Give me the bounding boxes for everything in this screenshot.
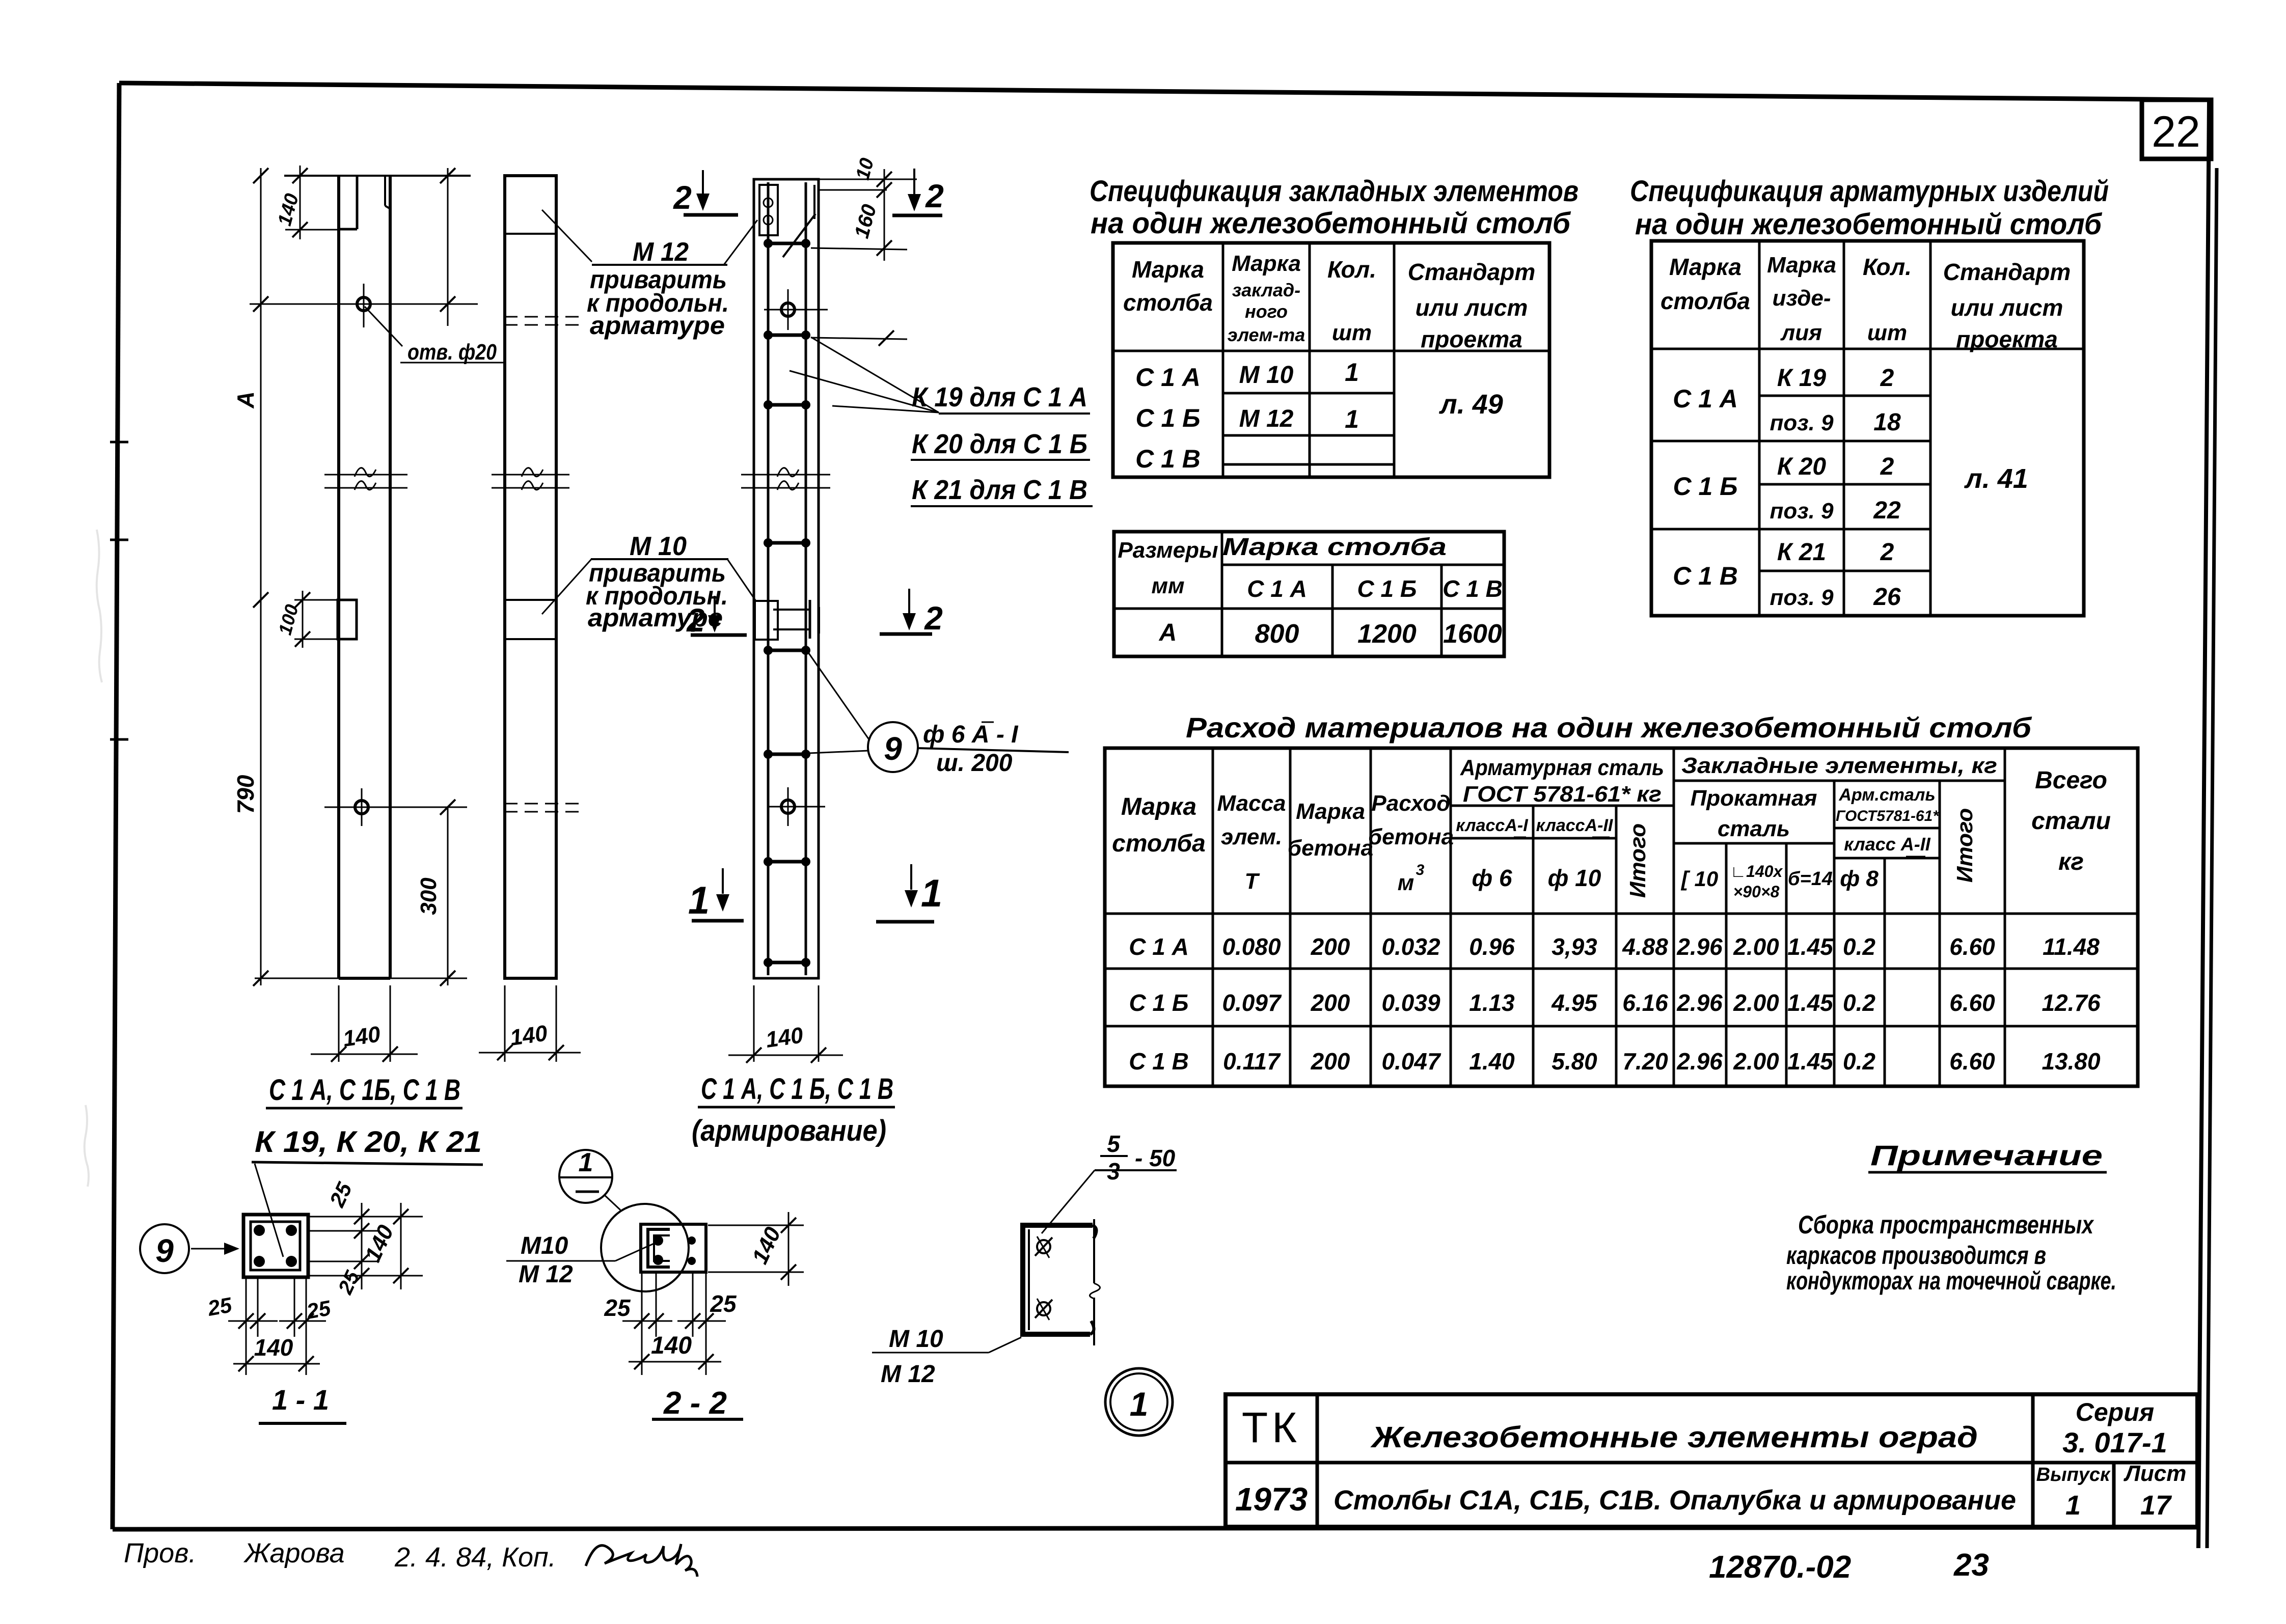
svg-text:К 19, К 20, К 21: К 19, К 20, К 21 bbox=[255, 1125, 482, 1159]
svg-text:Марка: Марка bbox=[1669, 254, 1741, 280]
svg-text:ф 8: ф 8 bbox=[1840, 866, 1879, 891]
table T4 data rows bbox=[1129, 933, 2101, 1075]
svg-text:Т: Т bbox=[1245, 869, 1260, 894]
label M10 M12 at section 2-2 bbox=[506, 1232, 656, 1288]
svg-text:элем.: элем. bbox=[1221, 824, 1282, 849]
embed M10 plate middle of post 3 bbox=[755, 600, 819, 640]
leaders to position 9 ties bbox=[809, 653, 869, 753]
svg-text:6.60: 6.60 bbox=[1949, 1048, 1995, 1075]
table title: specification of reinforcement products bbox=[1630, 175, 2109, 241]
dimension 140 bottom post C1A bbox=[311, 985, 418, 1062]
svg-text:Жарова: Жарова bbox=[243, 1538, 345, 1568]
svg-text:или лист: или лист bbox=[1416, 294, 1528, 321]
svg-text:М 10: М 10 bbox=[889, 1326, 943, 1353]
svg-text:Закладные элементы, кг: Закладные элементы, кг bbox=[1681, 753, 1997, 778]
svg-text:0.2: 0.2 bbox=[1843, 1048, 1875, 1075]
svg-text:стали: стали bbox=[2031, 808, 2111, 835]
leader from K-marks into section 1-1 bbox=[255, 1164, 283, 1257]
svg-text:классА-II: классА-II bbox=[1536, 816, 1614, 835]
svg-text:С 1 Б: С 1 Б bbox=[1673, 472, 1737, 501]
hole otv.f20 in post C1A bbox=[250, 284, 478, 327]
svg-text:Спецификация закладных элеме: Спецификация закладных элементов bbox=[1090, 175, 1579, 208]
svg-text:1: 1 bbox=[921, 872, 942, 915]
svg-text:140: 140 bbox=[254, 1334, 293, 1361]
label section 1-1 bbox=[259, 1384, 346, 1423]
svg-text:1.45: 1.45 bbox=[1787, 1048, 1834, 1075]
svg-text:25: 25 bbox=[304, 1296, 333, 1324]
svg-text:К 19 для С 1 А: К 19 для С 1 А bbox=[912, 382, 1087, 412]
svg-text:М 12: М 12 bbox=[519, 1261, 573, 1288]
svg-text:9: 9 bbox=[884, 730, 902, 767]
svg-text:140: 140 bbox=[341, 1022, 382, 1052]
title C1A C1B C1V formwork bbox=[266, 1074, 462, 1108]
dimensions below section 2-2 bbox=[604, 1272, 737, 1375]
leader M12 to post 2 bbox=[542, 210, 592, 262]
svg-text:2.96: 2.96 bbox=[1676, 989, 1723, 1016]
svg-text:ного: ного bbox=[1245, 301, 1288, 322]
rebar dots section 1-1 bbox=[254, 1225, 297, 1267]
svg-text:заклад-: заклад- bbox=[1232, 280, 1300, 300]
svg-text:М 12: М 12 bbox=[633, 237, 689, 267]
label M10 weld note bbox=[586, 532, 728, 632]
section 1-1 concrete outline bbox=[243, 1215, 308, 1277]
svg-text:140: 140 bbox=[651, 1332, 692, 1359]
svg-text:С 1 А: С 1 А bbox=[1247, 575, 1307, 602]
dimension 140 bottom post 3 bbox=[728, 985, 843, 1063]
break lines post 2 bbox=[492, 468, 569, 490]
svg-text:5: 5 bbox=[1107, 1131, 1121, 1157]
svg-text:л. 41: л. 41 bbox=[1964, 463, 2028, 494]
table T4 material consumption bbox=[1105, 748, 2138, 1086]
svg-text:поз. 9: поз. 9 bbox=[1770, 585, 1834, 610]
svg-text:бетона: бетона bbox=[1368, 824, 1454, 849]
svg-text:2.96: 2.96 bbox=[1676, 1048, 1723, 1075]
svg-text:23: 23 bbox=[1953, 1548, 1989, 1583]
svg-text:ГОСТ 5781-61* кг: ГОСТ 5781-61* кг bbox=[1463, 782, 1662, 807]
callout circle position 9 bbox=[868, 722, 918, 772]
svg-text:ш. 200: ш. 200 bbox=[936, 750, 1013, 777]
svg-text:К 21: К 21 bbox=[1777, 539, 1826, 566]
svg-text:Марка: Марка bbox=[1296, 799, 1365, 824]
svg-text:лия: лия bbox=[1780, 320, 1822, 345]
svg-text:ф 6: ф 6 bbox=[1472, 865, 1512, 891]
label M10 M12 at weld detail bbox=[872, 1326, 1021, 1388]
leader label otv.f20 bbox=[365, 307, 504, 365]
svg-text:- 50: - 50 bbox=[1135, 1145, 1176, 1171]
svg-text:на один железобетонный стол: на один железобетонный столб bbox=[1091, 207, 1571, 240]
embed M12 plate top of post 3 bbox=[759, 185, 815, 257]
svg-text:К 20 для С 1 Б: К 20 для С 1 Б bbox=[912, 429, 1087, 459]
svg-text:1200: 1200 bbox=[1357, 619, 1417, 649]
svg-text:[ 10: [ 10 bbox=[1680, 867, 1718, 891]
detail circle on section 2-2 bbox=[601, 1204, 689, 1291]
dimension 140 bottom post 2 bbox=[479, 985, 581, 1062]
svg-text:С 1 В: С 1 В bbox=[1443, 575, 1503, 602]
svg-text:Спецификация арматурных изде: Спецификация арматурных изделий bbox=[1630, 175, 2109, 208]
section marker 1 lower right bbox=[876, 864, 942, 922]
svg-text:1: 1 bbox=[1345, 405, 1359, 433]
svg-text:0.117: 0.117 bbox=[1223, 1048, 1281, 1075]
svg-text:2: 2 bbox=[925, 178, 944, 214]
svg-text:790: 790 bbox=[232, 775, 259, 814]
svg-text:6.60: 6.60 bbox=[1949, 933, 1995, 960]
svg-text:1: 1 bbox=[688, 879, 710, 922]
svg-text:1: 1 bbox=[579, 1148, 593, 1177]
svg-text:кг: кг bbox=[2058, 848, 2084, 875]
svg-text:13.80: 13.80 bbox=[2042, 1048, 2101, 1075]
svg-text:0.96: 0.96 bbox=[1469, 933, 1515, 960]
dimension 300 bbox=[255, 800, 467, 986]
svg-text:7.20: 7.20 bbox=[1622, 1048, 1668, 1075]
hidden hole lines post 2 top bbox=[504, 317, 586, 325]
svg-text:кондукторах на точечной сварке: кондукторах на точечной сварке. bbox=[1786, 1267, 2116, 1295]
svg-text:поз. 9: поз. 9 bbox=[1770, 499, 1834, 524]
svg-text:Марка: Марка bbox=[1121, 793, 1196, 820]
svg-text:С 1 В: С 1 В bbox=[1673, 562, 1738, 590]
svg-text:Марка: Марка bbox=[1767, 253, 1836, 278]
svg-text:6.60: 6.60 bbox=[1949, 989, 1995, 1016]
stirrup ties of reinforcement cage bbox=[764, 239, 810, 967]
weld detail channel profile bbox=[1020, 1223, 1097, 1337]
svg-text:мм: мм bbox=[1151, 573, 1184, 598]
svg-text:140: 140 bbox=[508, 1021, 549, 1051]
svg-text:поз. 9: поз. 9 bbox=[1770, 410, 1834, 435]
svg-text:Стандарт: Стандарт bbox=[1943, 259, 2071, 285]
svg-text:Марка: Марка bbox=[1232, 251, 1301, 276]
svg-text:Прокатная: Прокатная bbox=[1691, 786, 1817, 811]
svg-text:К 21 для С 1 В: К 21 для С 1 В bbox=[912, 475, 1087, 505]
svg-text:3. 017-1: 3. 017-1 bbox=[2062, 1426, 2167, 1458]
svg-text:Стандарт: Стандарт bbox=[1408, 259, 1536, 285]
label K19 for C1A bbox=[912, 382, 1090, 414]
svg-text:2: 2 bbox=[1880, 539, 1894, 566]
dimension 790 left side bbox=[232, 600, 268, 986]
break line weld detail bbox=[1090, 1219, 1100, 1345]
svg-text:С 1 Б: С 1 Б bbox=[1129, 989, 1189, 1016]
table T4 header texts bbox=[1112, 753, 2111, 901]
svg-text:С 1 Б: С 1 Б bbox=[1135, 404, 1200, 432]
svg-text:Примечание: Примечание bbox=[1870, 1139, 2103, 1171]
svg-text:9: 9 bbox=[155, 1232, 174, 1269]
svg-text:11.48: 11.48 bbox=[2043, 933, 2100, 960]
svg-text:17: 17 bbox=[2140, 1490, 2172, 1521]
svg-text:2.00: 2.00 bbox=[1733, 1048, 1779, 1075]
svg-text:2: 2 bbox=[924, 600, 943, 637]
svg-text:0.080: 0.080 bbox=[1222, 933, 1281, 960]
svg-text:отв. ф20: отв. ф20 bbox=[407, 340, 497, 365]
label M12 weld note bbox=[587, 237, 729, 340]
note text bbox=[1786, 1210, 2116, 1295]
svg-text:∟140x: ∟140x bbox=[1730, 862, 1783, 880]
svg-text:классА-I: классА-I bbox=[1456, 816, 1529, 835]
note title Primechanie bbox=[1868, 1139, 2107, 1172]
svg-text:18: 18 bbox=[1873, 409, 1901, 436]
leader M12 to post 3 embed bbox=[724, 220, 757, 265]
svg-text:25: 25 bbox=[710, 1290, 737, 1317]
dimensions below section 1-1 bbox=[205, 1277, 333, 1375]
svg-text:5.80: 5.80 bbox=[1552, 1048, 1597, 1075]
dimension 140 right of section 2-2 bbox=[708, 1212, 804, 1286]
svg-text:2 - 2: 2 - 2 bbox=[663, 1386, 727, 1421]
svg-text:М 10: М 10 bbox=[1239, 362, 1294, 389]
svg-text:×90×8: ×90×8 bbox=[1733, 883, 1780, 901]
channel embed in section 2-2 bbox=[648, 1229, 670, 1267]
table T3 post sizes bbox=[1114, 532, 1504, 656]
title block texts bbox=[1235, 1398, 2187, 1521]
svg-text:каркасов производится в: каркасов производится в bbox=[1786, 1241, 2046, 1270]
label K21 for C1V bbox=[911, 475, 1093, 506]
svg-text:С 1 В: С 1 В bbox=[1135, 445, 1201, 473]
svg-text:б=14: б=14 bbox=[1788, 868, 1833, 890]
svg-text:0.047: 0.047 bbox=[1381, 1048, 1441, 1075]
anchor dots section 2-2 bbox=[688, 1236, 696, 1265]
svg-text:1: 1 bbox=[2065, 1490, 2081, 1521]
post C1A side view outline bbox=[284, 176, 471, 978]
svg-text:Лист: Лист bbox=[2124, 1461, 2187, 1486]
leader M10 to post 3 embed bbox=[727, 559, 756, 601]
svg-text:Пров.: Пров. bbox=[124, 1538, 196, 1568]
title block frame bbox=[1226, 1394, 2197, 1527]
svg-text:0.032: 0.032 bbox=[1381, 933, 1440, 960]
svg-text:25: 25 bbox=[604, 1295, 631, 1321]
svg-text:1973: 1973 bbox=[1235, 1481, 1308, 1518]
svg-text:бетона: бетона bbox=[1288, 836, 1373, 861]
svg-text:2.00: 2.00 bbox=[1733, 933, 1779, 960]
svg-text:1.45: 1.45 bbox=[1787, 933, 1834, 960]
svg-text:С 1 Б: С 1 Б bbox=[1357, 575, 1417, 602]
svg-text:Столбы С1А, С1Б, С1В. Опалубк: Столбы С1А, С1Б, С1В. Опалубка и армиров… bbox=[1333, 1485, 2016, 1516]
svg-text:изде-: изде- bbox=[1772, 286, 1831, 311]
faint stamp remains left margin bbox=[85, 530, 102, 1187]
section marker 2 top right bbox=[892, 169, 944, 215]
hole 2 in post 3 bbox=[769, 787, 825, 826]
svg-text:С 1 А: С 1 А bbox=[1673, 384, 1738, 413]
hole 2 in post C1A bbox=[324, 788, 467, 826]
svg-text:800: 800 bbox=[1255, 619, 1299, 649]
svg-text:К 20: К 20 bbox=[1777, 453, 1827, 480]
handwritten check note bbox=[124, 1538, 697, 1577]
embed band M10 post 2 bbox=[505, 600, 556, 639]
svg-text:140: 140 bbox=[764, 1023, 805, 1053]
svg-text:1.40: 1.40 bbox=[1469, 1048, 1515, 1075]
svg-text:ф 6 А - I: ф 6 А - I bbox=[923, 721, 1019, 748]
svg-text:Итого: Итого bbox=[1952, 808, 1977, 883]
table T1 embedded elements bbox=[1113, 243, 1549, 477]
svg-text:Расход материалов на один: Расход материалов на один железобетонный… bbox=[1186, 711, 2032, 744]
svg-text:ф 10: ф 10 bbox=[1548, 865, 1601, 891]
svg-text:арматуре: арматуре bbox=[590, 311, 725, 340]
svg-text:С 1 В: С 1 В bbox=[1129, 1048, 1189, 1075]
svg-text:шт: шт bbox=[1332, 320, 1372, 345]
post C1A front view outline bbox=[505, 176, 556, 978]
svg-text:М 12: М 12 bbox=[881, 1361, 935, 1388]
svg-text:0.2: 0.2 bbox=[1843, 989, 1875, 1016]
svg-text:на один железобетонный стол: на один железобетонный столб bbox=[1635, 208, 2103, 241]
table title: specification of embedded elements bbox=[1090, 175, 1579, 240]
dimension 140 top of post bbox=[274, 166, 340, 239]
leaders to cage marks bbox=[790, 337, 939, 412]
svg-text:1: 1 bbox=[1345, 358, 1359, 387]
svg-text:С 1 А: С 1 А bbox=[1129, 933, 1189, 960]
svg-text:С 1 А, С 1Б, С 1 В: С 1 А, С 1Б, С 1 В bbox=[269, 1074, 460, 1107]
section marker 2 middle left bbox=[686, 596, 747, 639]
svg-text:элем-та: элем-та bbox=[1228, 324, 1305, 345]
svg-text:А: А bbox=[232, 391, 259, 408]
svg-text:2: 2 bbox=[686, 602, 705, 639]
section marker 2 top left bbox=[673, 170, 738, 216]
sheet number box 22 bbox=[2142, 100, 2211, 159]
svg-text:3: 3 bbox=[1416, 862, 1425, 878]
svg-text:сталь: сталь bbox=[1718, 816, 1790, 841]
svg-text:1 - 1: 1 - 1 bbox=[272, 1384, 329, 1416]
section marker 2 middle right bbox=[880, 589, 943, 637]
svg-text:Выпуск: Выпуск bbox=[2036, 1464, 2111, 1485]
svg-text:М 10: М 10 bbox=[630, 532, 687, 561]
svg-text:Расход: Расход bbox=[1371, 791, 1450, 816]
svg-text:Кол.: Кол. bbox=[1863, 254, 1912, 280]
svg-text:столба: столба bbox=[1661, 288, 1750, 314]
dimension chain 25-25 right of section 1-1 bbox=[308, 1178, 423, 1298]
svg-text:проекта: проекта bbox=[1421, 326, 1522, 352]
post C1A reinforcement view outline bbox=[754, 179, 819, 978]
svg-text:Марка столба: Марка столба bbox=[1222, 534, 1447, 561]
svg-text:22: 22 bbox=[1873, 497, 1901, 524]
detail circle 1 near title block bbox=[1105, 1368, 1173, 1436]
embed plate M10 side view in post C1A bbox=[338, 600, 357, 639]
break lines post C1A bbox=[324, 468, 407, 490]
svg-text:Размеры: Размеры bbox=[1118, 538, 1218, 563]
callout circle 9 at section 1-1 bbox=[140, 1224, 239, 1273]
svg-text:22: 22 bbox=[2152, 107, 2200, 156]
svg-text:Серия: Серия bbox=[2076, 1398, 2154, 1426]
svg-text:шт: шт bbox=[1867, 320, 1907, 345]
svg-text:2: 2 bbox=[1880, 453, 1894, 480]
document number annotation bbox=[1709, 1548, 1989, 1585]
svg-text:1: 1 bbox=[1130, 1385, 1149, 1423]
svg-text:Кол.: Кол. bbox=[1327, 256, 1376, 283]
svg-text:столба: столба bbox=[1112, 830, 1206, 857]
label section 2-2 bbox=[652, 1386, 743, 1421]
svg-text:2: 2 bbox=[673, 179, 692, 216]
weld symbol 5/3-50 bbox=[1042, 1131, 1177, 1233]
detail callout bubble 1 bbox=[559, 1148, 620, 1210]
svg-text:0.097: 0.097 bbox=[1222, 989, 1282, 1016]
svg-text:Железобетонные элементы ог: Железобетонные элементы оград bbox=[1370, 1421, 1978, 1454]
svg-text:1600: 1600 bbox=[1443, 619, 1502, 649]
svg-text:0.2: 0.2 bbox=[1843, 933, 1875, 960]
dimension 10 and 160 top of post 3 bbox=[811, 156, 917, 346]
title K19 K20 K21 bbox=[252, 1125, 483, 1165]
svg-text:Марка: Марка bbox=[1132, 256, 1204, 283]
svg-text:12870.-02: 12870.-02 bbox=[1709, 1550, 1851, 1585]
svg-text:300: 300 bbox=[416, 877, 441, 915]
section 2-2 concrete outline bbox=[641, 1224, 706, 1272]
table T2 reinforcement products bbox=[1651, 241, 2084, 616]
svg-text:ТК: ТК bbox=[1242, 1403, 1301, 1451]
svg-text:3,93: 3,93 bbox=[1552, 933, 1597, 960]
label f6 A-I sh.200 bbox=[917, 721, 1069, 777]
label K20 for C1B bbox=[911, 429, 1090, 460]
svg-text:200: 200 bbox=[1311, 1048, 1350, 1075]
hidden hole lines post 2 bottom bbox=[504, 804, 586, 812]
svg-text:Итого: Итого bbox=[1625, 823, 1650, 898]
svg-text:(армирование): (армирование) bbox=[692, 1114, 886, 1147]
break lines post 3 bbox=[741, 468, 830, 490]
svg-text:проекта: проекта bbox=[1956, 326, 2058, 352]
svg-text:2. 4. 84, Коп.: 2. 4. 84, Коп. bbox=[394, 1542, 556, 1573]
svg-text:4.88: 4.88 bbox=[1622, 933, 1668, 960]
dimension A left side bbox=[232, 168, 268, 608]
svg-text:1.13: 1.13 bbox=[1469, 989, 1515, 1016]
svg-text:12.76: 12.76 bbox=[2042, 989, 2101, 1016]
svg-text:столба: столба bbox=[1123, 289, 1213, 316]
title C1A C1B C1V reinforcement bbox=[692, 1072, 895, 1147]
svg-text:200: 200 bbox=[1311, 933, 1350, 960]
svg-text:26: 26 bbox=[1873, 584, 1901, 611]
svg-text:К 19: К 19 bbox=[1777, 365, 1827, 392]
svg-text:М 12: М 12 bbox=[1239, 405, 1294, 432]
svg-text:ГОСТ5781-61*: ГОСТ5781-61* bbox=[1836, 808, 1939, 824]
hole in post 3 bbox=[764, 289, 828, 330]
svg-text:Арм.сталь: Арм.сталь bbox=[1838, 785, 1935, 805]
svg-text:Масса: Масса bbox=[1217, 791, 1286, 816]
svg-text:6.16: 6.16 bbox=[1622, 989, 1668, 1016]
svg-text:2.00: 2.00 bbox=[1733, 989, 1779, 1016]
svg-text:200: 200 bbox=[1311, 989, 1350, 1016]
svg-text:или лист: или лист bbox=[1951, 294, 2063, 321]
svg-text:Арматурная сталь: Арматурная сталь bbox=[1460, 755, 1664, 780]
svg-text:2.96: 2.96 bbox=[1676, 933, 1723, 960]
weld bolts with weld marks bbox=[1035, 1236, 1052, 1320]
svg-text:С 1 А: С 1 А bbox=[1135, 363, 1201, 392]
svg-text:м: м bbox=[1398, 870, 1414, 895]
svg-text:А: А bbox=[1159, 619, 1177, 646]
svg-text:2: 2 bbox=[1880, 365, 1894, 392]
svg-text:класс А-II: класс А-II bbox=[1844, 834, 1931, 855]
svg-text:Сборка пространственных: Сборка пространственных bbox=[1798, 1210, 2094, 1239]
leader M10 to post 2 bbox=[542, 559, 592, 614]
svg-text:25: 25 bbox=[205, 1292, 234, 1320]
dimension line top right of post C1A bbox=[440, 168, 455, 326]
svg-text:С 1 А, С 1 Б, С 1 В: С 1 А, С 1 Б, С 1 В bbox=[701, 1072, 893, 1106]
section marker 1 lower left bbox=[688, 868, 744, 922]
svg-text:1.45: 1.45 bbox=[1787, 989, 1834, 1016]
svg-text:Всего: Всего bbox=[2035, 767, 2107, 794]
dimension 100 embed plate bbox=[274, 591, 338, 648]
svg-text:л. 49: л. 49 bbox=[1438, 389, 1503, 420]
svg-text:М10: М10 bbox=[521, 1232, 568, 1259]
dimension 140 right of section 1-1 bbox=[360, 1203, 409, 1289]
svg-text:0.039: 0.039 bbox=[1381, 989, 1440, 1016]
svg-text:4.95: 4.95 bbox=[1551, 989, 1598, 1016]
